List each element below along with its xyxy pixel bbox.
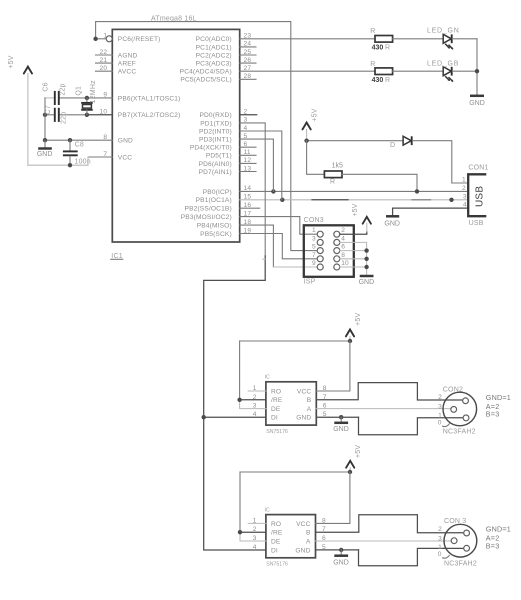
svg-text:430: 430 <box>372 77 384 84</box>
node legend CON 3 <box>486 524 511 550</box>
svg-text:PB0(ICP): PB0(ICP) <box>203 189 232 196</box>
CON3 ISP pin circles <box>317 231 340 270</box>
svg-text:4: 4 <box>463 202 467 209</box>
pin 1 inversion circle on PC6(/RESET) <box>106 36 112 42</box>
svg-text:A: A <box>306 538 311 545</box>
SN75176 #1 pin 1 RO stub (n.c.) <box>248 390 266 392</box>
wire MISO: pin18 to ISP pin 9 <box>240 225 318 267</box>
svg-text:12MHz: 12MHz <box>90 80 97 103</box>
svg-text:PD6(AIN0): PD6(AIN0) <box>199 161 232 168</box>
svg-text:2: 2 <box>462 185 466 192</box>
svg-text:GND: GND <box>295 547 310 554</box>
IC1 pin number labels <box>100 33 252 235</box>
svg-text:R: R <box>385 77 390 84</box>
svg-text:PD0(RXD): PD0(RXD) <box>199 112 231 119</box>
wire LED cathode to GND rail <box>452 38 477 40</box>
wire VCC (pin 7) to +5V rail <box>28 157 112 167</box>
svg-text:C7: C7 <box>45 105 52 114</box>
LED LED_GB <box>427 61 459 82</box>
svg-text:GND: GND <box>384 220 400 227</box>
svg-text:7: 7 <box>312 252 316 259</box>
svg-text:Q1: Q1 <box>75 86 82 96</box>
svg-text:8: 8 <box>341 252 345 259</box>
wire GND of transceiver 1 to CON2 pin 1 <box>316 415 463 435</box>
svg-text:AREF: AREF <box>118 61 136 68</box>
svg-text:USB: USB <box>469 220 484 227</box>
svg-text:ISP: ISP <box>304 279 316 286</box>
ground symbol at transceiver 2 <box>333 550 349 567</box>
svg-text:R: R <box>370 61 375 68</box>
wire USB D+ net (PB1 pin15 to USB pin 3) <box>240 198 469 202</box>
svg-text:IC: IC <box>265 375 270 381</box>
svg-text:GND: GND <box>469 100 485 107</box>
svg-text:LED_GB: LED_GB <box>427 61 459 68</box>
svg-text:PB2(SS/OC1B): PB2(SS/OC1B) <box>185 206 232 213</box>
svg-text:DE: DE <box>271 538 281 545</box>
ground symbol for LEDs <box>469 96 485 107</box>
svg-text:PC4(ADC4/SDA): PC4(ADC4/SDA) <box>180 69 232 76</box>
SN75176 #1 pin names and numbers <box>253 385 327 422</box>
wire PD3/INT1 riser to D- <box>240 139 274 191</box>
node legend CON2 <box>486 393 511 418</box>
wire from caps down to GND (pin 8 GND net) <box>43 98 113 142</box>
wire SCK: pin19 to ISP pin 7 <box>240 234 318 259</box>
wire GND of transceiver 2 to CON 3 pin 1 <box>316 548 464 566</box>
svg-text:SN75176: SN75176 <box>266 562 288 568</box>
wire MOSI: pin17 to ISP pin 1 <box>240 217 318 235</box>
svg-text:USB: USB <box>474 186 485 207</box>
svg-text:CON3: CON3 <box>304 217 324 224</box>
svg-text:PD4(XCK/T0): PD4(XCK/T0) <box>190 145 232 152</box>
svg-text:VCC: VCC <box>118 154 132 161</box>
svg-text:AVCC: AVCC <box>118 69 137 76</box>
svg-text:6: 6 <box>341 244 345 251</box>
svg-text:PC5(ADC5/SCL): PC5(ADC5/SCL) <box>180 77 231 84</box>
svg-text:10: 10 <box>341 260 349 267</box>
svg-text:PC2(ADC2): PC2(ADC2) <box>196 52 232 59</box>
CON1 pin numbers <box>462 176 467 208</box>
+5V supply arrow (transceiver 2) <box>346 445 362 472</box>
svg-text:DI: DI <box>271 547 278 554</box>
connector CON3 ISP header box <box>304 217 354 285</box>
svg-text:+5V: +5V <box>8 55 15 68</box>
wire A output of transceiver 2 to CON 3 pin 3 <box>316 540 452 542</box>
svg-text:1: 1 <box>438 413 442 420</box>
svg-text:GND: GND <box>118 138 133 145</box>
svg-text:R: R <box>385 45 390 52</box>
svg-text:PC6(/RESET): PC6(/RESET) <box>118 36 161 43</box>
svg-text:4: 4 <box>253 544 257 551</box>
svg-text:C8: C8 <box>75 141 84 148</box>
svg-text:A: A <box>307 406 312 413</box>
IC1 pin name labels <box>118 36 232 238</box>
svg-text:GND: GND <box>333 426 349 433</box>
svg-text:4: 4 <box>341 235 345 242</box>
crystal Q1 12MHz <box>75 80 97 115</box>
connector CON2 NC3FAH2 XLR socket <box>443 386 477 435</box>
wire B output of transceiver 1 to CON2 pin 2 <box>316 383 462 400</box>
resistor R1 430R <box>370 28 392 52</box>
svg-text:PB4(MISO): PB4(MISO) <box>197 223 232 230</box>
SN75176 #2 pin names and numbers <box>253 517 326 554</box>
wire XTAL2 net (pin 10) <box>43 113 113 117</box>
svg-text:1k5: 1k5 <box>332 163 343 170</box>
svg-text:/RE: /RE <box>271 397 283 404</box>
svg-text:5: 5 <box>312 244 316 251</box>
wire LED ground rail <box>475 39 479 95</box>
+5V supply arrow (ISP) <box>352 203 371 223</box>
connector CON 3 NC3FAH2 XLR socket <box>444 518 477 567</box>
svg-text:CON1: CON1 <box>468 165 488 172</box>
op-amp U1 : IC1 ATmega8-16L main microcontroller box <box>111 15 240 259</box>
wire RESET net: pin1 to top rail and down to ISP pin 5 <box>93 22 317 251</box>
svg-text:3: 3 <box>463 193 467 200</box>
wire XTAL1 net (pin 9) <box>45 96 112 100</box>
svg-text:AGND: AGND <box>118 52 138 59</box>
capacitor C8 100n <box>63 140 91 165</box>
svg-text:GND: GND <box>296 415 311 422</box>
CON3 ISP pin numbers <box>312 227 349 267</box>
svg-text:VCC: VCC <box>297 388 311 395</box>
capacitor C7 <box>45 105 67 124</box>
+5V supply arrow (transceiver 1) <box>346 313 362 341</box>
svg-text:GND=1: GND=1 <box>486 393 511 402</box>
svg-text:4: 4 <box>253 411 257 418</box>
svg-text:2: 2 <box>341 227 345 234</box>
wire PC4 to resistor <box>240 70 375 72</box>
IC1 unconnected pin stub wires <box>96 47 260 208</box>
+5V supply arrow (left) <box>8 55 32 165</box>
svg-text:+5V: +5V <box>352 203 359 216</box>
connector CON1 USB socket <box>468 165 488 228</box>
svg-text:PB5(SCK): PB5(SCK) <box>200 231 232 238</box>
svg-text:3: 3 <box>438 403 442 410</box>
svg-text:GND: GND <box>37 151 53 158</box>
svg-text:B: B <box>307 397 312 404</box>
svg-text:VCC: VCC <box>296 521 310 528</box>
svg-text:DE: DE <box>271 406 281 413</box>
transistor U2 : IC SN75176 transceiver 1 box <box>265 375 317 435</box>
svg-text:NC3FAH2: NC3FAH2 <box>443 428 476 435</box>
svg-text:PC3(ADC3): PC3(ADC3) <box>196 61 232 68</box>
svg-text:PB6(XTAL1/TOSC1): PB6(XTAL1/TOSC1) <box>118 95 181 102</box>
svg-text:PC1(ADC1): PC1(ADC1) <box>196 44 232 51</box>
CON 3 pin number labels <box>438 526 450 558</box>
wire USB D- net (PB0 pin14 to USB pin 2) <box>240 189 469 193</box>
svg-text:2: 2 <box>438 526 442 533</box>
svg-text:PD2(INT0): PD2(INT0) <box>199 128 232 135</box>
svg-text:+5V: +5V <box>355 313 362 326</box>
wire PC0 to resistor <box>240 38 375 40</box>
svg-text:C6: C6 <box>43 82 50 91</box>
svg-text:+5V: +5V <box>355 445 362 458</box>
svg-text:RO: RO <box>271 388 281 395</box>
ground symbol at ISP <box>359 276 375 286</box>
svg-text:DI: DI <box>271 415 278 422</box>
svg-text:3: 3 <box>312 235 316 242</box>
wire PD2/INT0 riser to D+ <box>240 131 282 200</box>
svg-text:22p: 22p <box>60 112 67 124</box>
wire TXD net: PD1 pin3 down left rail to both SN75176 DI pins <box>202 123 266 550</box>
resistor R2 430R <box>370 61 392 84</box>
svg-text:2: 2 <box>438 394 442 401</box>
svg-text:CON 3: CON 3 <box>444 518 466 525</box>
svg-text:9: 9 <box>312 260 316 267</box>
svg-text:0: 0 <box>438 551 442 558</box>
capacitor C6 <box>43 82 67 105</box>
ground symbol at transceiver 1 <box>333 417 349 433</box>
svg-text:3: 3 <box>438 535 442 542</box>
diode D <box>390 136 412 149</box>
svg-text:430: 430 <box>372 45 384 52</box>
wire LED cathode to GND rail <box>452 70 477 72</box>
svg-text:CON2: CON2 <box>443 386 463 393</box>
svg-text:1: 1 <box>462 176 466 183</box>
wire USB GND (pin 4) <box>393 208 469 215</box>
svg-text:PD3(INT1): PD3(INT1) <box>199 137 232 144</box>
svg-text:PD1(TXD): PD1(TXD) <box>200 120 232 127</box>
svg-text:D: D <box>390 142 395 149</box>
svg-text:B=3: B=3 <box>486 542 500 551</box>
svg-text:PC0(ADC0): PC0(ADC0) <box>196 36 232 43</box>
wire ISP pin 2 to +5V <box>340 223 367 234</box>
svg-text:+5V: +5V <box>311 108 318 121</box>
svg-text:/RE: /RE <box>271 530 283 537</box>
wire diode cathode to USB pin 1 (VBUS) <box>412 141 468 183</box>
svg-text:PD5(T1): PD5(T1) <box>206 153 232 160</box>
svg-text:RO: RO <box>271 521 281 528</box>
+5V supply arrow (USB/diode node) <box>303 108 319 140</box>
ground symbol near crystal <box>37 140 53 158</box>
svg-text:PB3(MOSI/OC2): PB3(MOSI/OC2) <box>181 214 232 221</box>
svg-text:IC: IC <box>265 507 270 513</box>
resistor R3 1k5 pullup <box>307 141 417 192</box>
svg-text:GND=1: GND=1 <box>486 524 511 533</box>
SN75176 #2 pin 1 RO stub (n.c.) <box>248 522 266 524</box>
wire ISP pins 4,6,8,10 to GND <box>340 242 369 275</box>
wire +5V rail to /RE+DE and VCC of transceiver 1 <box>237 339 352 409</box>
ground symbol at USB <box>384 216 400 227</box>
svg-text:PB1(OC1A): PB1(OC1A) <box>196 197 232 204</box>
svg-text:1: 1 <box>312 227 316 234</box>
svg-text:PB7(XTAL2/TOSC2): PB7(XTAL2/TOSC2) <box>118 112 181 119</box>
svg-text:R: R <box>370 28 375 35</box>
svg-text:B=3: B=3 <box>486 409 500 418</box>
CON2 pin number labels <box>438 394 450 426</box>
wire A output of transceiver 1 to CON2 pin 3 <box>316 408 451 410</box>
wire resistor to LED <box>393 70 444 72</box>
svg-text:R: R <box>330 179 335 186</box>
LED LED_GN <box>427 28 460 50</box>
wire resistor to LED <box>393 38 444 40</box>
svg-text:B: B <box>306 530 311 537</box>
svg-text:GND: GND <box>333 560 349 567</box>
svg-text:1: 1 <box>438 544 442 551</box>
svg-text:GND: GND <box>359 279 375 286</box>
svg-text:SN75176: SN75176 <box>266 429 288 435</box>
transistor U3 : IC SN75176 transceiver 2 box <box>265 507 316 567</box>
svg-text:22p: 22p <box>60 83 67 95</box>
wire +5V rail to /RE+DE and VCC of transceiver 2 <box>238 470 352 541</box>
wire +5V node to diode <box>304 139 403 143</box>
svg-text:LED_GN: LED_GN <box>427 28 460 35</box>
svg-text:NC3FAH2: NC3FAH2 <box>444 561 477 568</box>
svg-text:0: 0 <box>438 420 442 427</box>
wire B output of transceiver 2 to CON 3 pin 2 <box>316 515 464 533</box>
svg-text:PD7(AIN1): PD7(AIN1) <box>199 169 232 176</box>
